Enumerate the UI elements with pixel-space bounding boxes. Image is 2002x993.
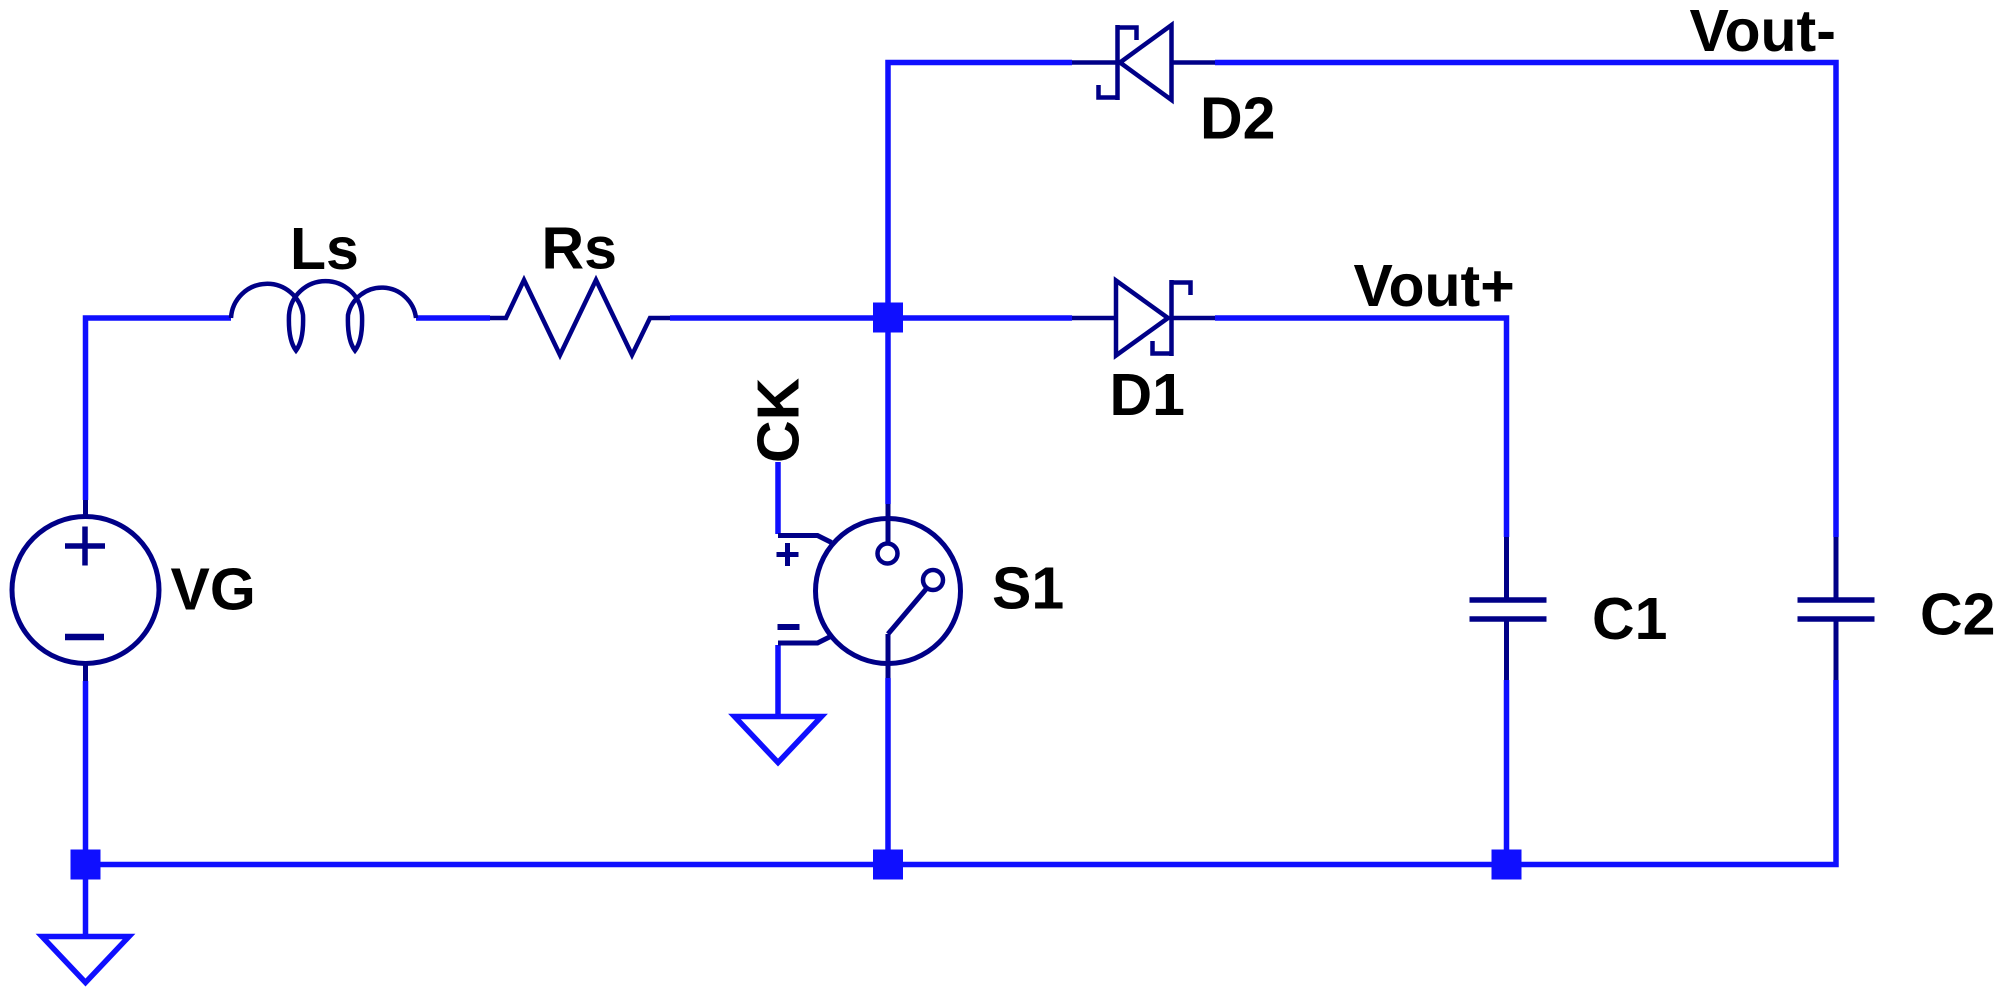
wire top net Vout- right segment and right vertical down to C2	[1215, 63, 1836, 538]
wire top net Vout- horizontal and corner down left to node	[888, 63, 1072, 505]
switch S1	[777, 504, 961, 678]
diode D2	[1072, 25, 1215, 100]
svg-text:D1: D1	[1110, 362, 1185, 428]
svg-text:C2: C2	[1920, 582, 1995, 648]
diode D1	[1072, 280, 1215, 356]
svg-text:Vout-: Vout-	[1690, 0, 1836, 64]
ground bottom left	[42, 937, 129, 983]
wire between Ls and Rs	[416, 315, 490, 321]
ground below switch control	[735, 717, 822, 763]
svg-text:Rs: Rs	[542, 216, 617, 282]
wire C1 bottom to ground rail	[1504, 680, 1510, 865]
svg-text:S1: S1	[992, 556, 1064, 622]
wire switch bottom to ground rail	[885, 678, 891, 865]
capacitor C2	[1798, 537, 1875, 680]
wire VG bottom to ground rail and down to ground symbol	[83, 681, 89, 936]
node junction bottom middle at switch	[873, 850, 903, 880]
wire C2 bottom, bottom ground rail to left	[86, 680, 1837, 865]
wire main net left vertical and horizontal to Ls	[86, 318, 232, 500]
wire between Rs and D1 through node	[670, 315, 1072, 321]
inductor Ls	[231, 281, 416, 350]
wire CK label to switch control +	[775, 462, 781, 534]
node junction at Rs/D1/switch	[873, 303, 903, 333]
node junction bottom right at C1	[1492, 850, 1522, 880]
capacitor C1	[1470, 537, 1547, 680]
svg-text:CK: CK	[746, 377, 812, 463]
svg-text:Vout+: Vout+	[1354, 253, 1515, 319]
wire switch control - down to ground symbol	[775, 645, 781, 717]
svg-text:Ls: Ls	[290, 216, 359, 282]
wire D1 to Vout+ corner down to C1	[1215, 318, 1507, 537]
svg-text:C1: C1	[1592, 586, 1667, 652]
voltage source VG	[12, 500, 159, 681]
node junction bottom left at VG	[71, 850, 101, 880]
svg-text:VG: VG	[171, 557, 256, 623]
svg-text:D2: D2	[1200, 86, 1275, 152]
resistor Rs	[490, 280, 670, 355]
